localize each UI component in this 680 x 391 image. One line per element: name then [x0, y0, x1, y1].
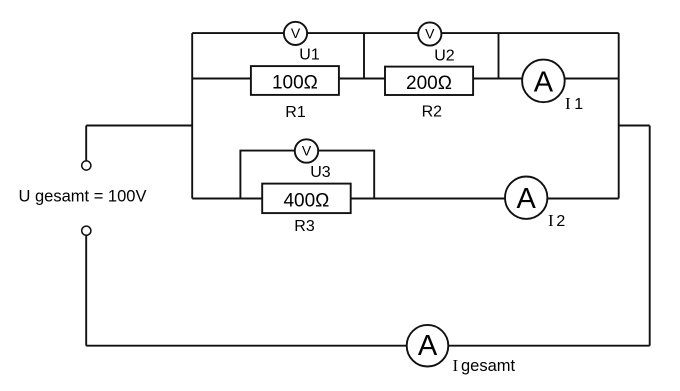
svg-text:U1: U1 [299, 47, 320, 64]
svg-text:R2: R2 [422, 104, 443, 121]
svg-text:V: V [291, 25, 301, 41]
wire junction divider between R1 and R2 [363, 33, 365, 78]
wire right vertical of parallel network [618, 33, 620, 198]
wire resistor row R1-R2 [192, 78, 619, 80]
label I2 [548, 211, 565, 230]
ammeter A1 [522, 60, 565, 103]
terminal lower [82, 226, 91, 235]
svg-text:400Ω: 400Ω [283, 191, 329, 212]
voltmeter U2 [418, 22, 441, 45]
wire right outer vertical [649, 126, 651, 346]
label I gesamt [453, 356, 516, 375]
svg-text:A: A [418, 330, 438, 362]
svg-text:R1: R1 [285, 104, 306, 121]
wire right feed at mid height [619, 125, 650, 127]
svg-text:U gesamt = 100V: U gesamt = 100V [19, 188, 147, 206]
wire top rail [192, 32, 619, 34]
svg-text:V: V [302, 143, 312, 159]
svg-text:I: I [453, 356, 459, 375]
svg-text:2: 2 [556, 213, 565, 230]
svg-text:V: V [425, 26, 435, 42]
wire bottom rail [86, 345, 650, 347]
terminal upper [82, 161, 91, 170]
resistor R1 [251, 66, 339, 95]
svg-text:200Ω: 200Ω [406, 73, 452, 94]
wire R3 branch row [192, 198, 619, 200]
svg-text:I: I [548, 211, 554, 230]
svg-text:U3: U3 [310, 164, 331, 181]
wire source upper stub [85, 126, 87, 162]
svg-text:I: I [565, 94, 571, 113]
label I1 [565, 94, 583, 113]
svg-text:gesamt: gesamt [461, 357, 516, 375]
svg-text:100Ω: 100Ω [272, 73, 318, 94]
svg-text:1: 1 [574, 96, 583, 113]
svg-text:A: A [534, 67, 554, 99]
wire junction divider right of R2 [498, 33, 500, 78]
wire U3 measuring loop [240, 151, 374, 199]
wire left feed at mid height [86, 125, 192, 127]
ammeter A2 [505, 177, 547, 219]
voltmeter U3 [295, 139, 318, 162]
wire left vertical of parallel network [191, 33, 193, 198]
resistor R3 [262, 184, 351, 214]
svg-text:R3: R3 [294, 218, 315, 235]
resistor R2 [385, 67, 473, 95]
svg-text:A: A [517, 183, 537, 215]
ammeter A gesamt [407, 325, 449, 367]
voltmeter U1 [284, 22, 307, 45]
wire source lower stub [85, 235, 87, 345]
svg-text:U2: U2 [434, 48, 455, 65]
